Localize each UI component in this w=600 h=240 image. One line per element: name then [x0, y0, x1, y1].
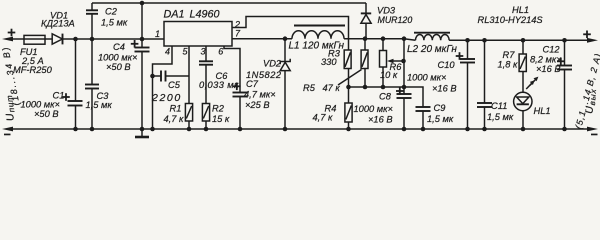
label R7 value	[498, 50, 519, 70]
svg-text:C5: C5	[168, 80, 181, 90]
junction: C11 top	[482, 38, 487, 43]
svg-text:15 к: 15 к	[212, 114, 230, 124]
junction: R1 bottom on rail	[187, 127, 192, 132]
svg-text:КД213А: КД213А	[41, 19, 75, 29]
label C6 value	[199, 71, 239, 90]
svg-text:C11: C11	[491, 101, 507, 111]
wire: divider rail to C9	[404, 87, 423, 107]
wire: divider rail	[349, 86, 405, 88]
svg-text:4,7 к: 4,7 к	[164, 114, 185, 124]
svg-text:1000 мк×: 1000 мк×	[407, 73, 446, 83]
wire: fuse to VD1	[45, 38, 52, 40]
svg-text:1N5822: 1N5822	[246, 70, 282, 80]
capacitor C6	[199, 61, 213, 103]
junction: R4 bottom on rail	[346, 127, 351, 132]
wire: L1 to L2 output node	[344, 39, 416, 41]
wire: VD1 to chip pin 1	[63, 38, 165, 40]
wire: bottom rail	[11, 128, 589, 130]
svg-text:DA1: DA1	[164, 9, 185, 21]
node: output minus terminal	[587, 127, 598, 136]
label C5 value	[151, 80, 182, 104]
svg-text:C2: C2	[105, 7, 118, 17]
svg-text:1,5 мк: 1,5 мк	[487, 112, 514, 122]
svg-text:1,8 к: 1,8 к	[498, 60, 519, 70]
junction: R6 bottom on divider rail	[381, 85, 386, 90]
svg-text:×50 В: ×50 В	[106, 62, 131, 72]
svg-text:C7: C7	[246, 79, 259, 89]
svg-text:C8: C8	[379, 92, 392, 102]
wire: top rail down to VD3	[365, 3, 367, 13]
junction: C7 bottom on rail	[238, 127, 243, 132]
junction: C12 top	[562, 38, 567, 43]
label R3 value	[321, 49, 341, 68]
svg-text:1,5 мк: 1,5 мк	[86, 100, 113, 110]
svg-text:C4: C4	[113, 42, 125, 52]
capacitor C7	[233, 83, 248, 130]
svg-text:R2: R2	[212, 104, 225, 114]
diode VD3	[361, 13, 371, 38]
svg-text:×16 В: ×16 В	[432, 84, 457, 94]
svg-text:R1: R1	[170, 104, 182, 114]
svg-text:2200: 2200	[151, 92, 182, 104]
node: input minus terminal	[2, 127, 13, 136]
junction: HL1 bottom on rail	[521, 127, 526, 132]
resistor R1	[185, 104, 192, 130]
capacitor C11	[477, 40, 492, 129]
svg-text:×25 В: ×25 В	[245, 100, 270, 110]
capacitor C12	[557, 40, 572, 129]
label R4 value	[313, 104, 337, 123]
junction: C4 bottom on rail	[140, 127, 145, 132]
svg-text:×50 В: ×50 В	[34, 109, 59, 119]
junction: C11 bottom on rail	[482, 127, 487, 132]
svg-text:C9: C9	[434, 103, 446, 113]
diode VD1	[52, 34, 62, 45]
capacitor C4	[131, 39, 150, 129]
svg-text:0,033 мк: 0,033 мк	[199, 80, 239, 90]
wire: C4 column from top rail to input wire	[141, 3, 143, 39]
label R6 value	[380, 62, 402, 80]
capacitor C9	[416, 107, 431, 129]
wire: top rail	[92, 2, 366, 4]
junction: ground column on rail	[150, 127, 155, 132]
svg-text:330: 330	[321, 57, 337, 67]
capacitor C10	[456, 40, 475, 129]
junction: C8 top	[402, 36, 407, 41]
junction: C8 column at divider rail	[402, 85, 407, 90]
label C10 value	[407, 60, 457, 94]
svg-text:C10: C10	[438, 60, 456, 70]
label C9 value	[427, 103, 454, 124]
wire: pin 6 jog to C7	[224, 46, 240, 93]
junction: divider node at R5	[363, 85, 368, 90]
svg-text:4,7 к: 4,7 к	[313, 113, 334, 123]
label R1 value	[164, 104, 185, 125]
svg-text:R7: R7	[503, 50, 516, 60]
junction: C12 bottom on rail	[562, 127, 567, 132]
wire: L2 to output terminal	[449, 39, 589, 41]
junction: R6 top	[381, 36, 386, 41]
wire: R5 wiper arrow	[338, 70, 362, 86]
label C7 value	[244, 79, 276, 110]
junction: top rail at C4 column	[140, 1, 145, 6]
svg-text:4,7 мк×: 4,7 мк×	[244, 90, 276, 100]
svg-text:VD2: VD2	[263, 59, 282, 69]
label C2 value	[101, 7, 128, 28]
svg-text:HL1: HL1	[512, 5, 529, 15]
label HL1 type	[478, 5, 544, 25]
wire: pin 3 down to C6	[205, 46, 207, 61]
junction: C10 top	[465, 38, 470, 43]
svg-text:1000 мк×: 1000 мк×	[98, 53, 137, 63]
inductor L1	[292, 26, 345, 39]
svg-text:×16 В: ×16 В	[536, 64, 561, 74]
junction: VD2 bottom on rail	[283, 127, 288, 132]
inductor L2	[414, 33, 450, 41]
label C8 value	[354, 92, 393, 125]
resistor R4	[345, 87, 352, 129]
label R2 value	[212, 104, 230, 125]
capacitor C2	[86, 3, 98, 39]
svg-text:R5: R5	[303, 83, 316, 93]
junction: divider node at R3/R4	[346, 85, 351, 90]
wire: input terminal to fuse	[11, 38, 24, 40]
capacitor C3	[85, 39, 99, 129]
capacitor C1	[62, 39, 82, 129]
junction: C8 bottom on rail	[402, 127, 407, 132]
junction: R7 top	[521, 38, 526, 43]
node: output plus terminal	[583, 31, 598, 43]
resistor R6	[380, 39, 406, 87]
svg-text:MF-R250: MF-R250	[13, 65, 53, 75]
resistor R5 (variable)	[361, 39, 368, 87]
junction: VD3 / R5 column	[363, 36, 368, 41]
op-amp U1 : regulator chip DA1 rectangle	[164, 22, 232, 47]
svg-text:L2 20 мкГн: L2 20 мкГн	[407, 44, 457, 55]
label C1 value	[21, 91, 65, 120]
junction: C10 bottom on rail	[465, 127, 470, 132]
capacitor C8	[396, 39, 412, 129]
svg-text:×16 В: ×16 В	[368, 115, 393, 125]
svg-text:3: 3	[201, 47, 206, 57]
label C4 value	[98, 42, 137, 72]
junction: VD2 top on switch node	[283, 36, 288, 41]
svg-text:10 к: 10 к	[380, 70, 398, 80]
junction: C1 bottom on rail	[73, 127, 78, 132]
junction: C9 bottom on rail	[421, 127, 426, 132]
resistor R3	[344, 50, 351, 87]
junction: C3 bottom on rail	[90, 127, 95, 132]
label C11 value	[487, 101, 514, 122]
svg-text:1,5 мк: 1,5 мк	[101, 18, 128, 28]
svg-text:4: 4	[165, 47, 170, 57]
svg-text:RL310-HY214S: RL310-HY214S	[478, 15, 544, 25]
LED HL1	[514, 72, 539, 130]
label VD1 КД213А	[41, 11, 75, 29]
junction: C1 top	[73, 37, 78, 42]
svg-text:MUR120: MUR120	[378, 15, 413, 25]
svg-text:HL1: HL1	[534, 106, 551, 116]
wire: pin 7 to L1	[232, 38, 292, 40]
resistor R2	[202, 104, 209, 130]
svg-text:1000 мк×: 1000 мк×	[354, 104, 393, 114]
svg-text:1: 1	[155, 29, 160, 39]
ground symbol	[135, 129, 149, 137]
diode VD2 (catch diode)	[280, 39, 290, 129]
resistor R7	[519, 40, 526, 71]
junction: R2 bottom on rail	[204, 127, 209, 132]
label VD2 1N5822	[246, 59, 282, 81]
svg-text:C12: C12	[543, 45, 561, 55]
label C12 value	[530, 45, 562, 75]
junction: C2/C3 column on input wire	[90, 37, 95, 42]
junction: C4 column on input wire	[140, 37, 145, 42]
svg-text:6: 6	[218, 47, 223, 57]
label C3 value	[86, 91, 113, 110]
junction: C5 tap on ground column	[150, 74, 155, 79]
capacitor C5	[153, 71, 190, 82]
svg-text:L4960: L4960	[190, 9, 220, 21]
svg-text:1000 мк×: 1000 мк×	[21, 100, 60, 110]
svg-text:VD3: VD3	[377, 6, 396, 16]
node: input plus terminal	[2, 29, 15, 42]
wire: pin 2 feedback line	[232, 17, 349, 51]
label VD3 MUR120	[377, 6, 412, 26]
svg-text:47 к: 47 к	[323, 83, 341, 93]
label FU1 value	[13, 47, 53, 75]
wire: pin 4 to ground column	[153, 46, 173, 129]
wire: pin 5 down to R1	[188, 46, 190, 104]
fuse FU1	[24, 35, 45, 44]
svg-text:1,5 мк: 1,5 мк	[427, 114, 454, 124]
svg-text:8,2 мк×: 8,2 мк×	[530, 55, 562, 65]
